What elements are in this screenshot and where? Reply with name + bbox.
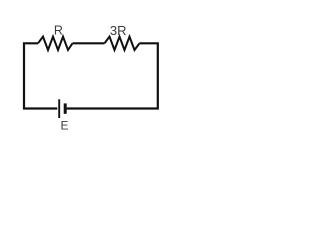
wire: top middle between resistors [73, 42, 105, 44]
svg-text:R: R [54, 23, 63, 37]
wire: right vertical side of loop [67, 43, 158, 108]
svg-text:3R: 3R [110, 23, 127, 38]
battery E: short thick plate (right) [64, 103, 67, 113]
resistor R2 (3R) [105, 37, 140, 50]
wire: left vertical side of loop [24, 43, 57, 108]
resistor R1 (R) [38, 37, 73, 50]
battery E: long plate (left) [58, 99, 60, 118]
svg-text:E: E [60, 119, 68, 133]
